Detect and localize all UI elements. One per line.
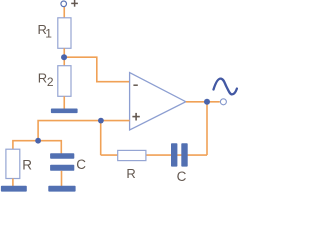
resistor R1: [58, 18, 71, 49]
svg-text:2: 2: [47, 75, 54, 89]
sine wave output symbol: [214, 79, 237, 95]
node output junction dot: [204, 99, 210, 105]
wire feedback RC row: [101, 154, 207, 156]
terminal output (open circle): [220, 99, 226, 105]
ground (below parallel C): [48, 186, 75, 192]
wire from + input node down to RC row: [100, 121, 102, 156]
ground (below parallel R): [1, 186, 27, 192]
label + (non-inverting input): [132, 113, 139, 121]
wire + input node left and down to parallel RC node: [38, 121, 101, 141]
terminal V+ (open circle): [61, 1, 67, 7]
svg-text:R: R: [22, 157, 32, 172]
svg-text:R: R: [126, 166, 135, 181]
resistor R (parallel, vertical): [6, 149, 20, 178]
node + input junction dot: [98, 118, 104, 124]
wire op-amp output to output terminal: [186, 101, 220, 103]
wire R2 bottom to ground: [63, 96, 65, 108]
wire + input node to op-amp: [101, 120, 130, 122]
node parallel RC junction dot: [35, 138, 41, 144]
capacitor C (series, horizontal): [171, 143, 188, 166]
svg-text:C: C: [76, 157, 86, 172]
op-amp U1: [130, 73, 186, 130]
wire parallel R bottom to ground: [12, 179, 14, 187]
resistor R (series, horizontal): [118, 150, 146, 160]
wire R1 bottom to R2 top: [63, 48, 65, 65]
label - (inverting input): [133, 84, 137, 86]
wire parallel node to R top: [13, 141, 38, 150]
wire from V+ terminal to R1 top: [63, 7, 65, 18]
ground (below R2): [51, 109, 78, 114]
svg-text:1: 1: [45, 27, 52, 41]
wire from node between R1/R2 to op-amp inverting input: [64, 57, 129, 81]
label + (supply polarity): [71, 0, 78, 7]
wire output node down to feedback RC row: [206, 102, 208, 155]
svg-text:C: C: [177, 169, 187, 184]
wire parallel C bottom to ground: [61, 171, 63, 186]
resistor R2: [58, 66, 71, 97]
wire parallel node to C top: [38, 141, 61, 154]
capacitor C (parallel) plates: [50, 153, 74, 171]
svg-text:R: R: [38, 70, 47, 85]
node junction dot R1/R2: [61, 54, 67, 60]
